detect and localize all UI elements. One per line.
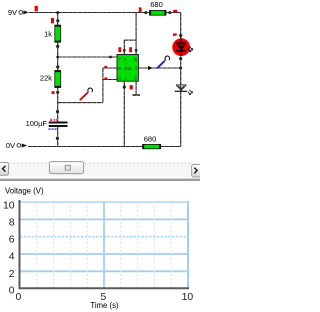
svg-text:Voltage (V): Voltage (V) <box>5 186 44 195</box>
svg-text:22k: 22k <box>40 74 52 83</box>
svg-text:680: 680 <box>150 0 163 9</box>
svg-text:1: 1 <box>124 76 127 81</box>
svg-text:0: 0 <box>16 292 22 303</box>
svg-text:2: 2 <box>118 76 121 81</box>
svg-text:0V: 0V <box>6 141 15 150</box>
svg-text:7: 7 <box>118 57 121 62</box>
svg-text:5: 5 <box>134 76 137 81</box>
svg-text:0: 0 <box>9 285 15 296</box>
svg-text:10: 10 <box>3 200 15 211</box>
svg-text:Time (s): Time (s) <box>90 301 119 310</box>
svg-text:100µF: 100µF <box>26 119 48 128</box>
svg-text:9V: 9V <box>8 8 17 17</box>
svg-text:3: 3 <box>135 66 138 71</box>
svg-text:680: 680 <box>144 135 157 144</box>
svg-text:4: 4 <box>124 57 127 62</box>
svg-text:6: 6 <box>9 235 15 246</box>
svg-text:1k: 1k <box>44 29 52 38</box>
svg-text:10: 10 <box>182 292 194 303</box>
svg-text:2: 2 <box>9 269 15 280</box>
svg-text:8: 8 <box>9 217 15 228</box>
svg-text:6: 6 <box>118 66 121 71</box>
svg-text:555: 555 <box>124 66 132 71</box>
svg-text:4: 4 <box>9 252 15 263</box>
svg-text:8: 8 <box>134 57 137 62</box>
